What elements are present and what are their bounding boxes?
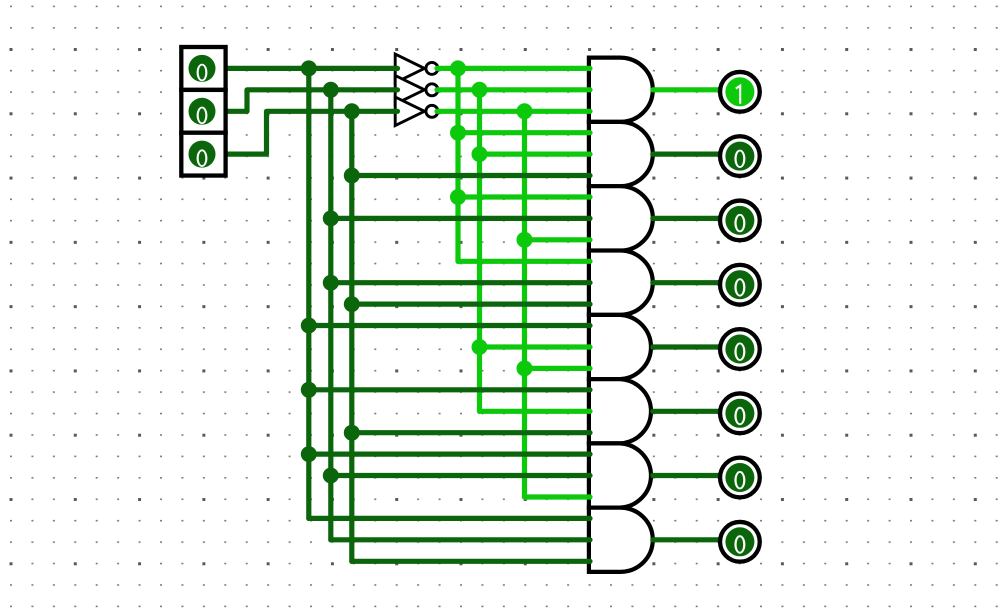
AND gate G7 bbox=[589, 443, 651, 507]
node B' junction at row 4 bbox=[472, 146, 488, 162]
wire pin A to inverter U1 input bbox=[224, 66, 398, 71]
wire B to gate G3 input 2 bbox=[331, 216, 590, 221]
wire C to gate G6 input 3 bbox=[352, 430, 590, 435]
wire C' vertical bus bbox=[522, 111, 527, 497]
node C' junction at inverter U3 output bbox=[517, 103, 533, 119]
output pin P8 bbox=[720, 522, 760, 562]
node A junction on pin A wire bbox=[301, 60, 317, 76]
wire inverter U1 output to gate G1 input 1 bbox=[437, 66, 590, 71]
wire A' vertical bus bbox=[455, 68, 460, 261]
wire gate G3 output to probe P3 bbox=[653, 216, 721, 221]
wire C' to gate G3 input 3 bbox=[525, 237, 591, 242]
node B junction at row 19 bbox=[323, 468, 339, 484]
output pin P6 bbox=[720, 393, 760, 433]
AND gate G8 bbox=[589, 508, 653, 572]
wire A' to gate G2 input 1 bbox=[458, 130, 590, 135]
wire gate G2 output to probe P2 bbox=[653, 152, 721, 157]
wire gate G7 output to probe P7 bbox=[653, 473, 721, 478]
node C junction at row 5 bbox=[344, 168, 360, 184]
wire B' vertical bus bbox=[477, 90, 482, 412]
node C junction on pin C wire bbox=[344, 103, 360, 119]
AND gate G5 bbox=[589, 315, 651, 379]
node B junction on pin B wire bbox=[323, 82, 339, 98]
node A' junction at row 3 bbox=[450, 125, 466, 141]
wire gate G1 output to probe P1 bbox=[653, 87, 721, 92]
output pin P1 bbox=[720, 72, 760, 112]
wire B' to gate G5 input 2 bbox=[480, 344, 591, 349]
wire A vertical bus bbox=[306, 68, 311, 518]
wire inverter U3 output to gate G1 input 3 bbox=[437, 109, 590, 114]
input pin IN1 bbox=[181, 47, 225, 90]
node C junction at row 11 bbox=[344, 296, 360, 312]
wire pin B to inverter U2 input bbox=[224, 90, 398, 112]
inverter U3 bbox=[395, 97, 438, 126]
wire gate G5 output to probe P5 bbox=[653, 344, 721, 349]
output pin P7 bbox=[720, 458, 760, 498]
output pin P2 bbox=[720, 136, 760, 176]
wire B' to gate G6 input 2 bbox=[480, 409, 591, 414]
wire B to gate G7 input 2 bbox=[331, 473, 590, 478]
output pin P3 bbox=[720, 201, 760, 241]
wire B to gate G8 input 2 bbox=[331, 537, 590, 542]
wire C to gate G8 input 3 bbox=[352, 559, 590, 564]
wire A' to gate G4 input 1 bbox=[458, 259, 590, 264]
inverter U1 bbox=[395, 54, 438, 83]
node B junction at row 7 bbox=[323, 210, 339, 226]
input pin IN2 bbox=[181, 90, 225, 133]
wire A to gate G5 input 1 bbox=[309, 323, 590, 328]
node B' junction at row 13 bbox=[472, 339, 488, 355]
node C junction at row 17 bbox=[344, 425, 360, 441]
inverter U2 bbox=[395, 76, 438, 105]
wire C to gate G4 input 3 bbox=[352, 302, 590, 307]
node B junction at row 10 bbox=[323, 275, 339, 291]
AND gate G2 bbox=[589, 122, 653, 186]
wire C to gate G2 input 3 bbox=[352, 173, 590, 178]
wire C' to gate G7 input 3 bbox=[525, 494, 591, 499]
wire inverter U2 output to gate G1 input 2 bbox=[437, 87, 590, 92]
node A junction at row 18 bbox=[301, 446, 317, 462]
AND gate G3 bbox=[589, 186, 653, 250]
wire C vertical bus bbox=[349, 111, 354, 561]
node A' junction at row 6 bbox=[450, 189, 466, 205]
node C' junction at row 8 bbox=[517, 232, 533, 248]
node C' junction at row 14 bbox=[517, 360, 533, 376]
node B' junction at inverter U2 output bbox=[472, 82, 488, 98]
wire B' to gate G2 input 2 bbox=[480, 152, 591, 157]
wire gate G6 output to probe P6 bbox=[653, 409, 721, 414]
wire A to gate G6 input 1 bbox=[309, 387, 590, 392]
wire pin C to inverter U3 input bbox=[224, 111, 398, 154]
wire A' to gate G3 input 1 bbox=[458, 194, 590, 199]
node A' junction at inverter U1 output bbox=[450, 60, 466, 76]
input pin IN3 bbox=[181, 133, 225, 176]
wire C' to gate G5 input 3 bbox=[525, 366, 591, 371]
wire B vertical bus bbox=[328, 90, 333, 540]
AND gate G1 bbox=[589, 58, 653, 122]
wire gate G8 output to probe P8 bbox=[653, 537, 721, 542]
AND gate G4 bbox=[589, 251, 653, 315]
node A junction at row 15 bbox=[301, 382, 317, 398]
output pin P4 bbox=[720, 265, 760, 305]
wire gate G4 output to probe P4 bbox=[653, 280, 721, 285]
output pin P5 bbox=[720, 329, 760, 369]
wire A to gate G7 input 1 bbox=[309, 452, 590, 457]
wire B to gate G4 input 2 bbox=[331, 280, 590, 285]
AND gate G6 bbox=[589, 379, 651, 443]
wire A to gate G8 input 1 bbox=[309, 516, 590, 521]
node A junction at row 12 bbox=[301, 318, 317, 334]
